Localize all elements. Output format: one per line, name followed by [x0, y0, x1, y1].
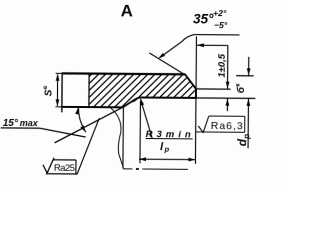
svg-text:A: A: [121, 1, 133, 20]
angle leader arrow: [158, 53, 165, 59]
svg-text:−5°: −5°: [214, 20, 228, 30]
svg-text:l: l: [160, 141, 164, 153]
break wavy line of local section: [109, 107, 123, 167]
svg-text:p: p: [164, 145, 170, 154]
fillet R3 and 15deg transition cone edge: [123, 97, 141, 107]
arrow 1+-0.5 up: [226, 99, 230, 106]
bore extension line right: [196, 97, 255, 99]
dim 1+-0.5 top arrow to end face: [196, 44, 227, 46]
label S: [42, 85, 55, 96]
arrow lp left: [139, 157, 146, 161]
root face extension line: [196, 88, 230, 90]
svg-text:R3min: R3min: [146, 129, 191, 140]
label dp: [235, 134, 251, 147]
roughness Ra6.3 shelf: [196, 131, 245, 133]
roughness Ra6.3 frame right: [244, 116, 246, 132]
angle arc 15deg: [78, 107, 86, 132]
part left edge: [61, 73, 63, 112]
R3min shelf: [146, 138, 193, 140]
svg-text:+2°: +2°: [213, 8, 227, 18]
svg-text:max: max: [20, 118, 39, 128]
label b: [235, 83, 248, 94]
root face (end face): [195, 88, 197, 98]
roughness Ra25 frame right: [75, 160, 77, 174]
roughness Ra25 tick: [43, 158, 54, 173]
arrow S bottom: [55, 99, 59, 106]
arrow S top: [56, 74, 60, 81]
arrow arc top: [75, 107, 79, 114]
svg-text:Ra6,3: Ra6,3: [211, 120, 243, 132]
dim 1+-0.5 vertical line: [227, 45, 229, 88]
svg-text:1±0,5: 1±0,5: [217, 53, 228, 78]
dim 1+-0.5 lower stub: [226, 99, 228, 111]
centerline dash: [123, 168, 132, 170]
svg-text:е: е: [42, 85, 49, 89]
hatch section fill: [0, 69, 222, 181]
arrow 1+-0.5 down: [226, 82, 230, 89]
arrow b up: [247, 99, 251, 106]
bore extension stub left: [55, 106, 61, 108]
bore surface line left: [61, 106, 123, 108]
wall thickness dim S line: [56, 74, 58, 105]
R3min leader line: [140, 99, 152, 138]
arrow arc bottom: [80, 125, 86, 132]
arrow lp right: [188, 158, 195, 162]
transition cone extension line: [55, 106, 124, 143]
counterbore surface line: [141, 96, 196, 98]
leader 15max underline: [1, 128, 86, 137]
R3min leader arrow: [140, 98, 144, 105]
label 1+-0.5: [217, 53, 228, 78]
bore corner extension vertical: [122, 107, 124, 168]
weld bevel edge 35deg: [185, 74, 197, 89]
svg-text:S: S: [43, 89, 54, 96]
bevel extension line: [149, 53, 185, 75]
roughness Ra6.3 tick: [198, 116, 209, 133]
section boundary vertical: [88, 74, 90, 107]
centerline dot: [136, 168, 139, 170]
outer surface extension stub right: [236, 75, 253, 77]
fillet extension line: [139, 101, 141, 163]
centerline long dash: [142, 168, 187, 170]
arrow b down: [247, 68, 251, 75]
svg-text:35°: 35°: [193, 11, 214, 26]
svg-text:к: к: [235, 83, 242, 87]
end face extension line: [195, 36, 197, 88]
roughness Ra25 frame top: [52, 159, 75, 161]
roughness Ra25 frame bottom: [46, 173, 77, 175]
lp dimension line: [139, 158, 195, 160]
roughness Ra25 leg to cone surface: [77, 118, 99, 174]
outer surface line: [62, 72, 185, 75]
angle leader shelf: [160, 34, 240, 58]
svg-text:Ra25: Ra25: [54, 163, 75, 174]
dim b / dp shared line: [247, 99, 249, 148]
outer surface extension stub left: [56, 72, 62, 74]
dim b vertical line top: [248, 57, 250, 75]
svg-text:p: p: [242, 134, 251, 140]
roughness Ra6.3 frame top: [209, 115, 245, 117]
